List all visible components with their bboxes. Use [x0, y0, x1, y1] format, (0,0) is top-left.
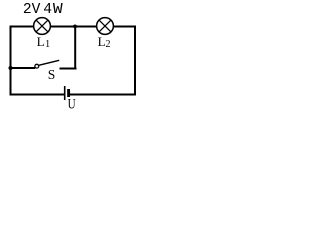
svg-text:S: S — [48, 67, 56, 82]
svg-text:4: 4 — [43, 2, 52, 18]
svg-text:U: U — [68, 97, 76, 113]
node junction dot top — [73, 25, 77, 29]
wire bottom right segment — [70, 94, 136, 96]
wire top horizontal — [10, 26, 137, 28]
svg-text:1: 1 — [45, 39, 50, 50]
wire switch left segment — [10, 67, 36, 69]
wire bottom left segment — [10, 94, 65, 96]
svg-text:L: L — [37, 34, 45, 49]
svg-text:L: L — [98, 34, 106, 49]
svg-text:2V: 2V — [23, 2, 41, 18]
node junction dot left — [9, 66, 13, 70]
lamp L2 — [97, 18, 114, 35]
wire middle vertical branch — [74, 27, 76, 70]
wire switch right segment — [60, 68, 77, 70]
wire right vertical — [134, 26, 136, 96]
lamp L1 — [34, 18, 51, 35]
switch S — [35, 60, 59, 68]
wire left vertical — [10, 26, 12, 96]
battery U — [65, 86, 69, 100]
svg-text:W: W — [53, 2, 63, 18]
svg-text:2: 2 — [106, 39, 111, 50]
